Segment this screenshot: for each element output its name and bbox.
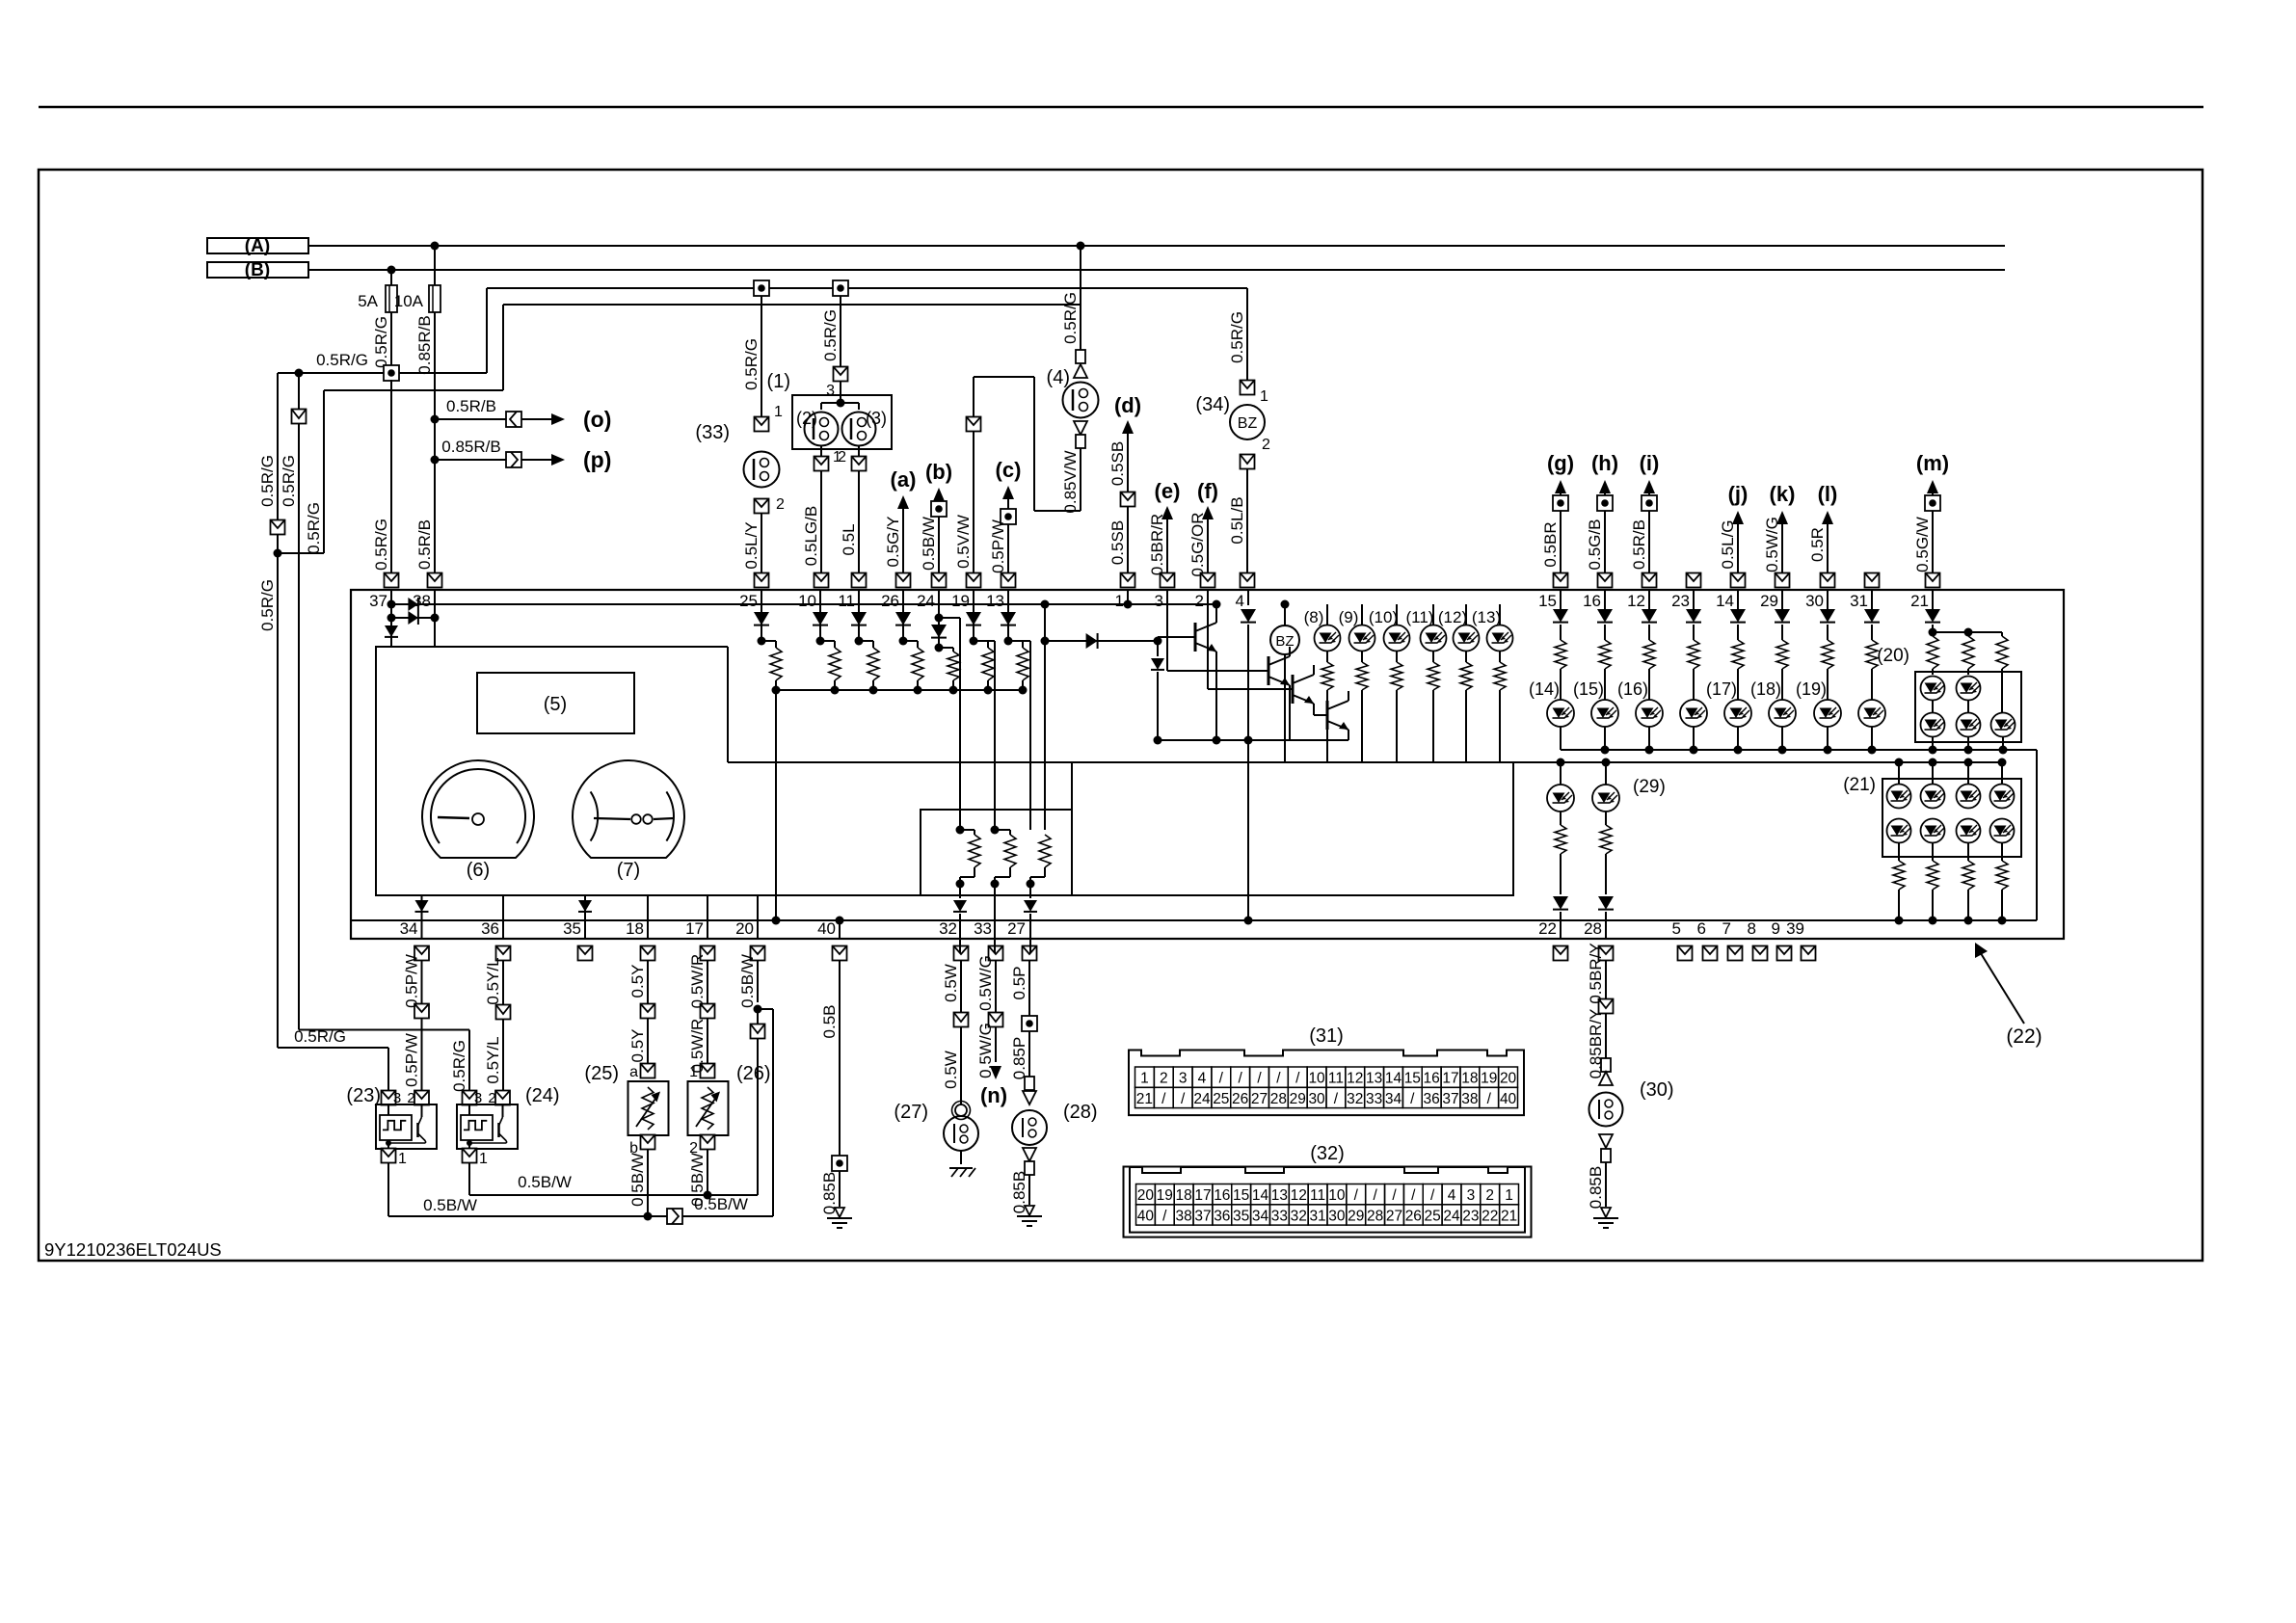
- svg-text:1: 1: [1505, 1187, 1513, 1204]
- svg-text:29: 29: [1348, 1208, 1364, 1224]
- svg-text:2: 2: [1160, 1071, 1168, 1087]
- svg-text:(l): (l): [1818, 482, 1838, 506]
- svg-text:27: 27: [1386, 1208, 1402, 1224]
- svg-text:12: 12: [1291, 1187, 1307, 1204]
- svg-text:13: 13: [986, 592, 1004, 610]
- svg-text:2: 2: [1485, 1187, 1494, 1204]
- svg-text:0.5B/W: 0.5B/W: [920, 517, 938, 571]
- svg-text:(19): (19): [1796, 679, 1827, 699]
- svg-text:36: 36: [481, 919, 499, 938]
- svg-text:(24): (24): [525, 1085, 560, 1106]
- svg-text:1: 1: [1115, 592, 1124, 610]
- svg-text:0.5BR/R: 0.5BR/R: [1148, 514, 1166, 575]
- svg-text:0.5R/G: 0.5R/G: [258, 579, 277, 631]
- svg-text:24: 24: [1443, 1208, 1460, 1224]
- svg-text:1: 1: [479, 1151, 488, 1167]
- svg-text:(6): (6): [467, 860, 490, 881]
- svg-text:2: 2: [776, 496, 785, 513]
- svg-text:19: 19: [951, 592, 970, 610]
- svg-text:35: 35: [563, 919, 581, 938]
- svg-text:26: 26: [1232, 1091, 1248, 1107]
- svg-text:10: 10: [1308, 1071, 1325, 1087]
- svg-text:0.85P: 0.85P: [1010, 1037, 1028, 1079]
- svg-text:(21): (21): [1843, 775, 1876, 795]
- svg-text:0.5BR: 0.5BR: [1541, 521, 1560, 567]
- svg-text:(p): (p): [583, 447, 611, 472]
- svg-text:24: 24: [1193, 1091, 1211, 1107]
- svg-text:31: 31: [1850, 592, 1868, 610]
- svg-text:16: 16: [1424, 1071, 1440, 1087]
- svg-text:(31): (31): [1309, 1025, 1344, 1047]
- svg-text:(16): (16): [1617, 679, 1648, 699]
- svg-text:(o): (o): [583, 407, 611, 432]
- svg-text:(4): (4): [1047, 367, 1070, 388]
- svg-text:0.5W: 0.5W: [942, 964, 960, 1002]
- svg-text:(23): (23): [346, 1085, 381, 1106]
- svg-text:0.5W/G: 0.5W/G: [976, 955, 995, 1011]
- svg-text:30: 30: [1805, 592, 1824, 610]
- svg-text:24: 24: [917, 592, 935, 610]
- svg-text:25: 25: [1213, 1091, 1229, 1107]
- svg-text:0.5R/G: 0.5R/G: [258, 455, 277, 507]
- svg-text:0.85R/B: 0.85R/B: [441, 438, 500, 456]
- svg-text:0.5R/G: 0.5R/G: [372, 316, 390, 368]
- svg-text:0.5B/W: 0.5B/W: [694, 1195, 748, 1213]
- svg-text:1: 1: [1140, 1071, 1149, 1087]
- svg-text:0.5B/W: 0.5B/W: [628, 1153, 647, 1207]
- svg-text:16: 16: [1583, 592, 1601, 610]
- svg-text:28: 28: [1584, 919, 1602, 938]
- svg-text:0.5Y/L: 0.5Y/L: [484, 957, 502, 1004]
- svg-text:0.5L/B: 0.5L/B: [1228, 496, 1246, 544]
- svg-text:10A: 10A: [394, 292, 424, 310]
- svg-text:0.5R: 0.5R: [1808, 527, 1827, 562]
- svg-text:33: 33: [974, 919, 992, 938]
- svg-text:20: 20: [1500, 1071, 1517, 1087]
- svg-text:BZ: BZ: [1238, 415, 1258, 432]
- svg-text:(34): (34): [1195, 394, 1230, 415]
- svg-text:5: 5: [1672, 919, 1681, 938]
- svg-text:6: 6: [1697, 919, 1706, 938]
- svg-text:33: 33: [1271, 1208, 1288, 1224]
- svg-text:23: 23: [1671, 592, 1690, 610]
- svg-text:/: /: [1392, 1187, 1397, 1204]
- svg-text:0.85B: 0.85B: [1587, 1166, 1605, 1209]
- svg-text:/: /: [1239, 1071, 1243, 1087]
- svg-text:8: 8: [1748, 919, 1756, 938]
- svg-text:(18): (18): [1750, 679, 1781, 699]
- svg-text:21: 21: [1136, 1091, 1153, 1107]
- svg-text:25: 25: [739, 592, 758, 610]
- svg-text:0.5BR/Y: 0.5BR/Y: [1587, 943, 1605, 1003]
- svg-text:/: /: [1430, 1187, 1435, 1204]
- svg-text:5A: 5A: [358, 292, 378, 310]
- svg-text:/: /: [1257, 1071, 1262, 1087]
- svg-text:11: 11: [1328, 1071, 1344, 1087]
- svg-text:0.5P/W: 0.5P/W: [989, 519, 1007, 573]
- svg-text:0.5B: 0.5B: [820, 1005, 839, 1039]
- svg-text:20: 20: [1137, 1187, 1155, 1204]
- svg-text:0.5R/G: 0.5R/G: [372, 519, 390, 571]
- svg-text:0.5R/G: 0.5R/G: [1061, 292, 1080, 344]
- svg-text:0.5SB: 0.5SB: [1108, 520, 1127, 565]
- svg-text:(h): (h): [1591, 451, 1618, 475]
- svg-text:35: 35: [1233, 1208, 1249, 1224]
- svg-text:0.5L/G: 0.5L/G: [1719, 519, 1737, 569]
- svg-text:/: /: [1487, 1091, 1492, 1107]
- svg-text:(26): (26): [736, 1063, 771, 1084]
- svg-text:0.5G/Y: 0.5G/Y: [884, 517, 902, 568]
- svg-text:/: /: [1295, 1071, 1300, 1087]
- svg-text:0.5R/B: 0.5R/B: [1630, 519, 1648, 570]
- svg-text:/: /: [1162, 1208, 1167, 1224]
- svg-text:0.5P: 0.5P: [1010, 967, 1028, 1000]
- svg-text:(30): (30): [1640, 1079, 1674, 1101]
- svg-text:/: /: [1373, 1187, 1377, 1204]
- svg-text:0.5B/W: 0.5B/W: [423, 1196, 477, 1214]
- svg-text:(9): (9): [1339, 608, 1359, 626]
- svg-text:(1): (1): [767, 371, 790, 392]
- svg-text:26: 26: [1405, 1208, 1422, 1224]
- svg-text:14: 14: [1716, 592, 1734, 610]
- svg-text:20: 20: [735, 919, 754, 938]
- svg-text:0.85R/B: 0.85R/B: [415, 315, 434, 374]
- svg-text:0.5B/W: 0.5B/W: [738, 954, 757, 1008]
- svg-text:1: 1: [774, 404, 783, 420]
- svg-text:19: 19: [1157, 1187, 1173, 1204]
- svg-text:0.5G/OR: 0.5G/OR: [1188, 512, 1207, 576]
- svg-text:(n): (n): [980, 1083, 1007, 1107]
- svg-text:(3): (3): [866, 409, 887, 428]
- svg-text:4: 4: [1448, 1187, 1456, 1204]
- svg-text:2: 2: [1195, 592, 1204, 610]
- svg-text:(b): (b): [925, 460, 952, 484]
- svg-text:BZ: BZ: [1275, 633, 1294, 650]
- svg-text:3: 3: [826, 383, 835, 399]
- svg-text:/: /: [1161, 1091, 1166, 1107]
- svg-text:36: 36: [1424, 1091, 1440, 1107]
- svg-text:40: 40: [1137, 1208, 1155, 1224]
- svg-text:15: 15: [1404, 1071, 1421, 1087]
- svg-text:9Y1210236ELT024US: 9Y1210236ELT024US: [44, 1239, 222, 1260]
- svg-text:0.5W/R: 0.5W/R: [688, 954, 707, 1009]
- svg-text:(32): (32): [1310, 1143, 1345, 1164]
- svg-text:32: 32: [1347, 1091, 1363, 1107]
- svg-text:3: 3: [1467, 1187, 1476, 1204]
- svg-text:7: 7: [1722, 919, 1731, 938]
- svg-text:(17): (17): [1706, 679, 1737, 699]
- svg-text:36: 36: [1214, 1208, 1230, 1224]
- svg-text:40: 40: [1500, 1091, 1517, 1107]
- svg-text:16: 16: [1214, 1187, 1230, 1204]
- svg-text:/: /: [1181, 1091, 1186, 1107]
- svg-text:0.5G/B: 0.5G/B: [1586, 519, 1604, 571]
- svg-text:25: 25: [1425, 1208, 1441, 1224]
- svg-text:18: 18: [1461, 1071, 1478, 1087]
- svg-text:(A): (A): [245, 236, 270, 256]
- svg-text:31: 31: [1309, 1208, 1325, 1224]
- svg-text:37: 37: [369, 592, 387, 610]
- svg-text:0.5R/G: 0.5R/G: [316, 351, 368, 369]
- svg-text:40: 40: [817, 919, 836, 938]
- svg-text:18: 18: [626, 919, 644, 938]
- svg-text:32: 32: [1291, 1208, 1307, 1224]
- svg-text:4: 4: [1198, 1071, 1207, 1087]
- svg-text:(i): (i): [1640, 451, 1660, 475]
- svg-text:0.5R/G: 0.5R/G: [821, 309, 840, 361]
- svg-text:(j): (j): [1728, 482, 1749, 506]
- svg-text:(m): (m): [1916, 451, 1949, 475]
- svg-text:(27): (27): [894, 1102, 928, 1123]
- svg-text:15: 15: [1538, 592, 1557, 610]
- svg-text:a: a: [629, 1064, 638, 1080]
- svg-text:(B): (B): [245, 260, 270, 280]
- svg-text:/: /: [1334, 1091, 1339, 1107]
- svg-text:1: 1: [398, 1151, 407, 1167]
- svg-text:(25): (25): [584, 1063, 619, 1084]
- svg-text:38: 38: [1461, 1091, 1478, 1107]
- svg-text:4: 4: [1236, 592, 1244, 610]
- svg-text:/: /: [1410, 1091, 1415, 1107]
- svg-text:17: 17: [1442, 1071, 1458, 1087]
- svg-text:0.5P/W: 0.5P/W: [403, 954, 421, 1008]
- svg-text:/: /: [1411, 1187, 1416, 1204]
- svg-text:(12): (12): [1438, 608, 1467, 626]
- svg-text:17: 17: [685, 919, 704, 938]
- svg-text:38: 38: [1176, 1208, 1192, 1224]
- svg-text:13: 13: [1366, 1071, 1382, 1087]
- svg-text:19: 19: [1481, 1071, 1497, 1087]
- svg-text:0.5W/R: 0.5W/R: [688, 1019, 707, 1074]
- svg-text:12: 12: [1347, 1071, 1363, 1087]
- svg-text:3: 3: [1155, 592, 1163, 610]
- svg-text:0.85V/W: 0.85V/W: [1061, 450, 1080, 513]
- svg-text:12: 12: [1627, 592, 1645, 610]
- svg-text:0.5L/Y: 0.5L/Y: [742, 521, 761, 569]
- svg-text:(7): (7): [617, 860, 640, 881]
- svg-text:26: 26: [881, 592, 899, 610]
- svg-text:0.5R/G: 0.5R/G: [450, 1040, 468, 1092]
- svg-text:0.5R/G: 0.5R/G: [1228, 311, 1246, 363]
- svg-text:0.5SB: 0.5SB: [1108, 441, 1127, 486]
- svg-text:38: 38: [413, 592, 431, 610]
- svg-text:34: 34: [1252, 1208, 1269, 1224]
- svg-text:0.5R/G: 0.5R/G: [742, 338, 761, 390]
- svg-text:14: 14: [1252, 1187, 1269, 1204]
- svg-text:(c): (c): [996, 458, 1022, 482]
- svg-text:3: 3: [1179, 1071, 1188, 1087]
- svg-text:10: 10: [798, 592, 816, 610]
- svg-text:0.5P/W: 0.5P/W: [403, 1033, 421, 1087]
- svg-text:(28): (28): [1063, 1102, 1098, 1123]
- svg-text:29: 29: [1760, 592, 1778, 610]
- svg-text:34: 34: [1385, 1091, 1402, 1107]
- svg-text:(g): (g): [1547, 451, 1574, 475]
- svg-text:30: 30: [1308, 1091, 1325, 1107]
- svg-text:10: 10: [1328, 1187, 1346, 1204]
- svg-text:17: 17: [1194, 1187, 1211, 1204]
- svg-text:(20): (20): [1877, 646, 1909, 666]
- svg-text:14: 14: [1385, 1071, 1402, 1087]
- svg-text:(8): (8): [1304, 608, 1324, 626]
- svg-text:(11): (11): [1406, 608, 1434, 626]
- svg-text:0.5LG/B: 0.5LG/B: [802, 506, 820, 566]
- svg-text:0.5W: 0.5W: [942, 1051, 960, 1089]
- svg-text:(e): (e): [1155, 479, 1181, 503]
- svg-text:27: 27: [1007, 919, 1026, 938]
- svg-text:(14): (14): [1529, 679, 1560, 699]
- svg-text:2: 2: [838, 449, 846, 466]
- svg-text:(22): (22): [2006, 1025, 2042, 1048]
- svg-text:0.5V/W: 0.5V/W: [954, 515, 973, 569]
- svg-text:39: 39: [1786, 919, 1804, 938]
- svg-text:0.5Y/L: 0.5Y/L: [484, 1036, 502, 1083]
- svg-text:30: 30: [1328, 1208, 1346, 1224]
- svg-text:/: /: [1276, 1071, 1281, 1087]
- svg-text:0.5G/W: 0.5G/W: [1913, 517, 1932, 572]
- svg-text:/: /: [1354, 1187, 1359, 1204]
- svg-text:0.5Y: 0.5Y: [628, 965, 647, 998]
- svg-text:22: 22: [1482, 1208, 1498, 1224]
- svg-text:13: 13: [1271, 1187, 1288, 1204]
- svg-text:(a): (a): [891, 467, 917, 492]
- svg-text:21: 21: [1910, 592, 1929, 610]
- svg-text:(29): (29): [1633, 777, 1666, 797]
- svg-text:11: 11: [1310, 1187, 1325, 1204]
- svg-text:0.5R/G: 0.5R/G: [305, 502, 323, 554]
- svg-text:21: 21: [1501, 1208, 1517, 1224]
- svg-text:(2): (2): [796, 409, 817, 428]
- svg-text:0.5L: 0.5L: [840, 523, 858, 555]
- svg-text:0.5R/B: 0.5R/B: [415, 519, 434, 570]
- svg-text:2: 2: [1262, 437, 1270, 453]
- svg-text:/: /: [1219, 1071, 1224, 1087]
- svg-text:18: 18: [1176, 1187, 1192, 1204]
- svg-text:0.5W/G: 0.5W/G: [1763, 517, 1781, 572]
- svg-text:0.5R/B: 0.5R/B: [446, 397, 496, 415]
- svg-text:32: 32: [939, 919, 957, 938]
- svg-text:1: 1: [1260, 388, 1268, 405]
- svg-text:29: 29: [1290, 1091, 1306, 1107]
- svg-text:(13): (13): [1472, 608, 1501, 626]
- svg-text:33: 33: [1366, 1091, 1382, 1107]
- svg-text:11: 11: [838, 592, 855, 610]
- svg-text:22: 22: [1538, 919, 1557, 938]
- svg-text:(d): (d): [1114, 393, 1141, 417]
- svg-text:(k): (k): [1770, 482, 1796, 506]
- svg-text:(f): (f): [1197, 479, 1218, 503]
- svg-text:0.5Y: 0.5Y: [628, 1029, 647, 1063]
- svg-text:27: 27: [1251, 1091, 1268, 1107]
- svg-text:(5): (5): [544, 694, 567, 715]
- svg-text:28: 28: [1270, 1091, 1287, 1107]
- svg-text:0.5B/W: 0.5B/W: [518, 1173, 572, 1191]
- svg-text:23: 23: [1462, 1208, 1479, 1224]
- svg-text:(15): (15): [1573, 679, 1604, 699]
- svg-text:0.5R/G: 0.5R/G: [280, 455, 298, 507]
- svg-text:15: 15: [1233, 1187, 1249, 1204]
- svg-text:(33): (33): [695, 422, 730, 443]
- svg-text:34: 34: [400, 919, 418, 938]
- svg-text:37: 37: [1194, 1208, 1211, 1224]
- svg-text:9: 9: [1772, 919, 1780, 938]
- svg-text:28: 28: [1367, 1208, 1383, 1224]
- svg-text:37: 37: [1442, 1091, 1458, 1107]
- svg-text:(10): (10): [1369, 608, 1398, 626]
